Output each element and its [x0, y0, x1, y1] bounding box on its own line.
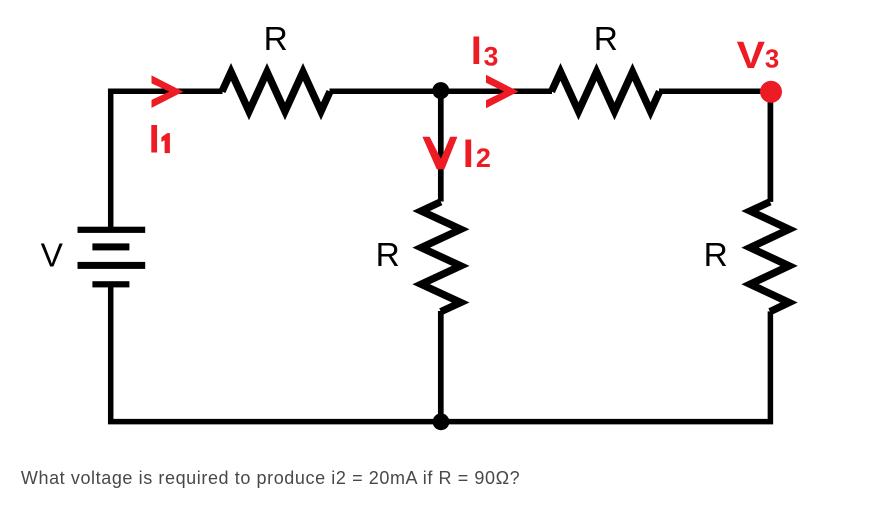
arrow I1 current direction right	[152, 75, 184, 108]
arrow I3 current direction right	[486, 75, 519, 108]
battery V1 long plate lower	[78, 262, 146, 269]
wire R3 to bottom node B	[438, 311, 444, 422]
svg-text:I: I	[149, 118, 160, 162]
arrow I2 current direction down	[422, 137, 457, 169]
wire node A to R2	[441, 89, 552, 95]
svg-text:3: 3	[765, 45, 779, 73]
svg-text:R: R	[264, 21, 288, 58]
node V3 red dot	[760, 81, 782, 103]
wire node A down to R3	[438, 91, 444, 202]
wire top-left from battery + to R1	[111, 91, 223, 229]
svg-text:What voltage is required to pr: What voltage is required to produce i2 =…	[21, 468, 520, 488]
svg-text:R: R	[594, 21, 618, 58]
resistor R1	[222, 72, 330, 111]
node A junction dot	[432, 82, 449, 99]
resistor R4	[750, 202, 789, 312]
wire node V3 down to R4	[768, 92, 774, 202]
resistor R2	[552, 72, 660, 111]
label I1 subscript 1	[161, 133, 170, 153]
svg-text:R: R	[376, 237, 400, 274]
wire R1 to node A	[330, 89, 442, 95]
svg-text:V: V	[41, 237, 64, 274]
node B junction dot	[433, 413, 450, 430]
resistor R3	[421, 202, 461, 312]
svg-text:I3: I3	[471, 29, 499, 73]
svg-text:R: R	[704, 237, 728, 274]
wire R4 to bottom-right corner	[441, 311, 770, 421]
battery V1 short plate bottom	[92, 281, 129, 287]
wire bottom-left to battery -	[111, 284, 441, 422]
battery V1 short plate upper	[92, 243, 129, 250]
wire R2 to node V3	[659, 89, 770, 95]
svg-text:V: V	[737, 34, 765, 76]
svg-text:I2: I2	[463, 132, 491, 176]
battery V1 long plate top	[78, 227, 146, 233]
